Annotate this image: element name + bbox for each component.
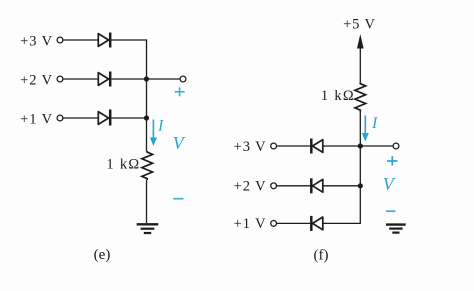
supply label +5 V (f) <box>343 17 376 33</box>
svg-text:+1 V: +1 V <box>20 112 53 128</box>
label V (e) <box>173 133 186 153</box>
node label +3 V (f) <box>234 139 267 155</box>
caption (e) <box>94 247 111 263</box>
svg-text:1 kΩ: 1 kΩ <box>321 88 355 104</box>
diode D2 (e) <box>98 72 110 87</box>
label − polarity (f) <box>386 210 395 212</box>
terminal +2 V (e) <box>57 76 63 82</box>
current arrow I (e) <box>150 120 157 147</box>
svg-text:+3 V: +3 V <box>20 34 53 50</box>
terminal +3 V (f) <box>271 143 277 149</box>
label I (e) <box>157 117 164 134</box>
junction node output row (f) <box>358 143 363 148</box>
junction node +1V row (e) <box>144 115 149 120</box>
wire output (e) <box>147 78 181 80</box>
svg-text:+2 V: +2 V <box>20 73 53 89</box>
svg-text:+3 V: +3 V <box>234 139 267 155</box>
wire D3 to bus (e) <box>111 117 146 119</box>
wire +3V input (f) <box>276 145 310 147</box>
diode D1 (e) <box>98 33 110 48</box>
terminal +3 V (e) <box>57 37 63 43</box>
ground (e) <box>137 224 159 233</box>
node label +2 V (f) <box>234 179 267 195</box>
junction node +2V row (f) <box>358 183 363 188</box>
terminal +2 V (f) <box>271 183 277 189</box>
caption (f) <box>314 247 329 263</box>
label + polarity (e) <box>175 87 185 96</box>
label + polarity (f) <box>387 156 398 165</box>
current arrow I (f) <box>362 116 369 142</box>
wire +3V input (e) <box>63 39 98 41</box>
diode D4 (f) <box>311 139 323 154</box>
label I (f) <box>371 115 378 132</box>
diode D5 (f) <box>311 178 323 193</box>
wire bus vertical (f) <box>359 146 361 224</box>
junction node +2V row (e) <box>144 76 149 81</box>
wire D5 to bus (f) <box>323 185 361 187</box>
svg-text:(e): (e) <box>94 247 111 263</box>
diode D3 (e) <box>98 110 110 126</box>
wire D4 to bus (f) <box>323 145 361 147</box>
node label +1 V (e) <box>20 112 53 128</box>
node label +1 V (f) <box>234 216 267 232</box>
resistor R1 1 kΩ (e) <box>142 151 153 180</box>
label V (f) <box>383 174 396 194</box>
svg-text:I: I <box>157 117 164 134</box>
wire D6 to bus corner (f) <box>323 222 361 224</box>
wire resistor to node (f) <box>359 112 361 147</box>
label − polarity (e) <box>173 198 183 200</box>
resistor R2 1 kΩ (f) <box>355 83 366 112</box>
wire D2 to bus (e) <box>111 78 146 80</box>
ground (f) <box>386 225 406 233</box>
supply arrow +5V (f) <box>357 34 364 83</box>
diode D6 (f) <box>311 216 323 231</box>
svg-text:+5 V: +5 V <box>343 17 376 33</box>
value label 1 kΩ (f) <box>321 88 355 104</box>
svg-text:I: I <box>371 115 378 132</box>
svg-text:+2 V: +2 V <box>234 179 267 195</box>
wire +1V input (f) <box>276 222 310 224</box>
svg-text:(f): (f) <box>314 247 329 263</box>
wire resistor to ground (e) <box>146 180 148 223</box>
output terminal (f) <box>393 143 399 149</box>
node label +2 V (e) <box>20 73 53 89</box>
wire bus vertical (e) <box>146 39 148 151</box>
wire D1 to bus (e) <box>111 39 146 41</box>
value label 1 kΩ (e) <box>106 156 140 172</box>
terminal +1 V (f) <box>271 221 277 227</box>
wire +2V input (e) <box>63 78 98 80</box>
node label +3 V (e) <box>20 34 53 50</box>
wire +1V input (e) <box>63 117 98 119</box>
svg-text:+1 V: +1 V <box>234 216 267 232</box>
wire +2V input (f) <box>276 185 310 187</box>
output terminal (e) <box>180 76 186 82</box>
wire output (f) <box>360 145 393 147</box>
svg-text:1 kΩ: 1 kΩ <box>106 156 140 172</box>
terminal +1 V (e) <box>57 115 63 121</box>
